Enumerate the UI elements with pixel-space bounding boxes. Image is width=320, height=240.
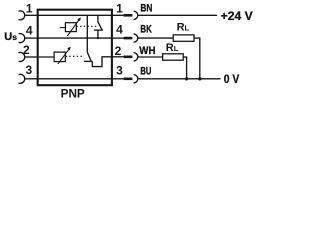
svg-text:4: 4 — [26, 23, 33, 37]
svg-text:1: 1 — [116, 2, 123, 16]
junction RL2 / 0V rail — [185, 77, 188, 80]
svg-text:2: 2 — [23, 43, 30, 57]
svg-text:Us: Us — [4, 31, 17, 43]
wire top rail pin1 (inside box) — [38, 14, 112, 16]
wire RL1 to 0V rail — [194, 38, 200, 79]
sensor element B2 arrow — [58, 49, 69, 64]
junction RL1 / 0V rail — [198, 77, 201, 80]
svg-text:3: 3 — [25, 63, 32, 77]
svg-text:BU: BU — [140, 66, 151, 78]
connector socket pin1 left — [19, 11, 25, 20]
wire RL2 to 0V rail — [183, 57, 186, 79]
resistor RL2 — [163, 54, 184, 60]
sensor element B1 arrow — [67, 19, 79, 36]
svg-text:+24 V: +24 V — [221, 9, 253, 23]
svg-text:2: 2 — [115, 44, 122, 58]
sensor element B2 square — [54, 52, 65, 62]
connector socket pin3 left — [19, 74, 25, 83]
svg-text:BK: BK — [140, 23, 151, 35]
dotted actuation link 1 — [76, 25, 96, 27]
resistor RL1 — [173, 35, 194, 41]
wire BU / 0V rail — [138, 78, 221, 80]
wire BN to +24V — [138, 14, 217, 16]
wire switch S2 supply drop from top rail — [86, 15, 88, 52]
sensor element B1 square — [65, 23, 76, 32]
svg-text:4: 4 — [116, 23, 123, 37]
switch S1 — [97, 15, 99, 21]
wire BK to resistor RL1 — [138, 37, 173, 39]
sensor element B1 left stub — [60, 27, 66, 29]
wire WH to resistor RL2 — [138, 56, 163, 58]
wire bottom rail pin3 (inside box) — [38, 78, 112, 80]
connector socket pin4 left — [19, 34, 25, 43]
connector plug pin1 right — [112, 14, 124, 16]
svg-text:3: 3 — [116, 63, 123, 77]
svg-text:1: 1 — [26, 2, 33, 16]
connector socket pin2 left — [19, 53, 25, 62]
svg-text:BN: BN — [140, 2, 152, 14]
connector plug pin3 right — [112, 78, 124, 80]
svg-text:PNP: PNP — [61, 87, 85, 101]
svg-text:WH: WH — [139, 45, 155, 57]
svg-text:RL: RL — [166, 42, 179, 54]
junction S1 output / pin4 row — [97, 37, 99, 39]
connector plug pin2 right — [112, 56, 124, 58]
wire row pin2 left segment (inside box) — [38, 56, 55, 58]
switch S2 — [87, 52, 91, 61]
dotted actuation link 2 — [66, 55, 84, 57]
svg-text:RL: RL — [177, 22, 190, 34]
connector plug pin4 right — [112, 37, 124, 39]
wire S2 output staircase to pin2 — [92, 57, 112, 67]
svg-text:0 V: 0 V — [224, 72, 240, 86]
wire row pin4 (inside box) — [38, 37, 112, 39]
sensor body box — [38, 10, 112, 86]
